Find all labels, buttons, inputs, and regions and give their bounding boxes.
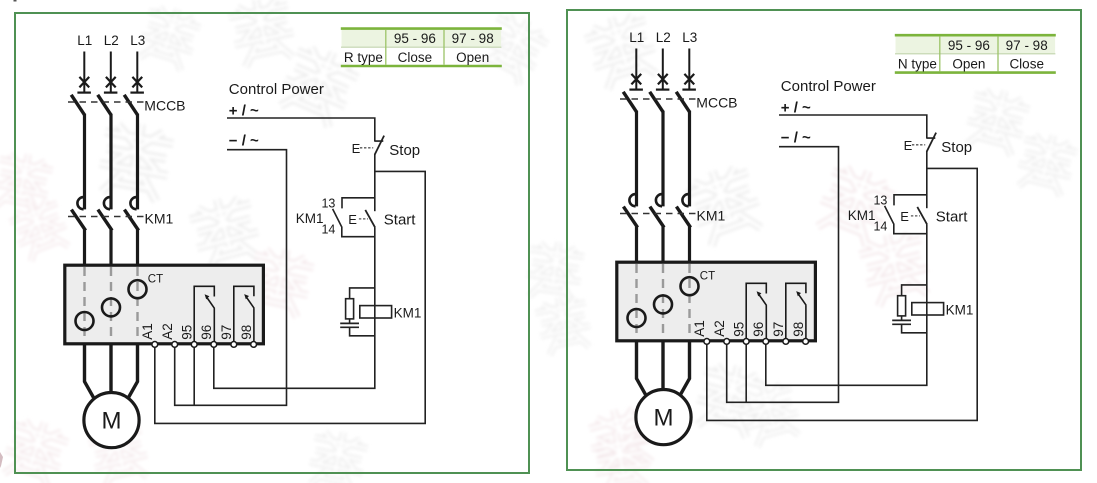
svg-text:Close: Close <box>398 50 433 65</box>
svg-text:R type: R type <box>344 50 383 65</box>
svg-text:N type: N type <box>898 56 937 71</box>
svg-text:97 - 98: 97 - 98 <box>1006 38 1048 53</box>
svg-text:97 - 98: 97 - 98 <box>452 31 494 46</box>
svg-text:95 - 96: 95 - 96 <box>948 38 990 53</box>
svg-text:95 - 96: 95 - 96 <box>394 31 436 46</box>
svg-text:Open: Open <box>456 50 489 65</box>
svg-text:Close: Close <box>1009 56 1044 71</box>
svg-text:Open: Open <box>952 56 985 71</box>
